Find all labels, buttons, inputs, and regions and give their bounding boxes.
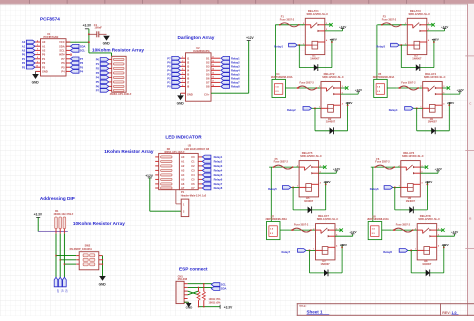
svg-text:1N4007: 1N4007 (304, 199, 314, 203)
svg-text:+12V: +12V (435, 167, 443, 171)
svg-text:Fuse 3557-2: Fuse 3557-2 (294, 224, 309, 227)
svg-text:SRD-12VDC-SL-C: SRD-12VDC-SL-C (418, 217, 440, 221)
svg-text:+12V: +12V (340, 243, 348, 247)
svg-text:DS-DSRP_C319061: DS-DSRP_C319061 (70, 248, 93, 251)
svg-text:10Kohm Resistor Array: 10Kohm Resistor Array (92, 47, 144, 52)
svg-text:2: 2 (421, 86, 422, 88)
svg-text:C5: C5 (191, 178, 195, 182)
svg-text:A1: A1 (181, 160, 185, 164)
svg-text:A0: A0 (42, 40, 46, 44)
svg-text:+12V: +12V (447, 101, 455, 105)
svg-text:Relay5: Relay5 (231, 73, 240, 77)
svg-text:GND: GND (177, 102, 185, 106)
svg-text:1N4007: 1N4007 (412, 57, 422, 61)
svg-text:100nF: 100nF (94, 26, 102, 30)
svg-text:SCL: SCL (80, 49, 86, 53)
svg-text:7: 7 (37, 53, 38, 55)
svg-text:A2: A2 (65, 289, 69, 293)
svg-text:P5: P5 (80, 65, 84, 69)
svg-text:4: 4 (326, 39, 327, 42)
svg-text:4: 4 (182, 68, 183, 71)
svg-text:A6: A6 (181, 182, 185, 186)
svg-text:Relay3: Relay3 (214, 164, 223, 168)
svg-text:17: 17 (212, 81, 214, 83)
svg-text:1.0: 1.0 (452, 311, 457, 315)
svg-text:GND: GND (99, 283, 107, 287)
svg-text:P1: P1 (181, 190, 185, 194)
svg-text:4: 4 (438, 245, 439, 248)
svg-text:15: 15 (212, 73, 214, 75)
svg-text:+12V: +12V (441, 243, 449, 247)
svg-text:5: 5 (182, 73, 183, 75)
svg-text:8: 8 (182, 85, 183, 87)
svg-text:10Kohm Resistor Array: 10Kohm Resistor Array (73, 221, 125, 226)
svg-text:P5: P5 (96, 80, 100, 84)
svg-text:+3.3V: +3.3V (34, 213, 43, 217)
svg-text:1N4007: 1N4007 (422, 262, 432, 266)
svg-text:SRD-12VDC-SL-C: SRD-12VDC-SL-C (300, 154, 322, 158)
svg-text:Relay2: Relay2 (287, 108, 296, 112)
svg-text:Relay6: Relay6 (370, 187, 379, 191)
svg-text:Fuse 3557-2: Fuse 3557-2 (382, 18, 397, 21)
svg-text:8: 8 (37, 57, 38, 59)
svg-text:SRD-12VDC-SL-C: SRD-12VDC-SL-C (307, 12, 329, 16)
svg-text:Header-Male-2.54_1x2: Header-Male-2.54_1x2 (181, 195, 207, 198)
svg-text:A1: A1 (42, 44, 46, 48)
svg-text:+12V: +12V (323, 180, 331, 184)
svg-text:GND: GND (187, 92, 193, 96)
svg-text:Relay2: Relay2 (214, 160, 223, 164)
svg-text:A2: A2 (42, 49, 46, 53)
svg-text:P4: P4 (96, 76, 100, 80)
svg-text:11: 11 (212, 57, 214, 59)
svg-text:PCF8574AN: PCF8574AN (44, 35, 59, 39)
svg-text:2: 2 (313, 228, 314, 230)
svg-text:7: 7 (182, 81, 183, 83)
svg-text:Relay3: Relay3 (376, 45, 385, 49)
svg-text:SRD-12VDC-SL-C: SRD-12VDC-SL-C (409, 12, 431, 16)
svg-text:O6: O6 (206, 77, 210, 81)
svg-text:4: 4 (342, 102, 343, 105)
svg-text:Relay1: Relay1 (231, 56, 240, 60)
svg-text:4: 4 (428, 39, 429, 42)
svg-text:2: 2 (405, 23, 406, 25)
svg-text:P7: P7 (96, 89, 100, 93)
svg-text:P6: P6 (96, 85, 100, 89)
svg-text:P3: P3 (96, 71, 100, 75)
svg-text:Relay4: Relay4 (214, 169, 223, 173)
svg-text:ULN2803APG: ULN2803APG (193, 49, 210, 53)
svg-text:5: 5 (37, 45, 38, 47)
svg-text:U3: U3 (188, 144, 192, 148)
svg-text:CU+: CU+ (204, 92, 210, 96)
svg-text:Relay1: Relay1 (274, 45, 283, 49)
svg-text:C2: C2 (191, 164, 195, 168)
svg-text:C3: C3 (191, 169, 195, 173)
svg-text:O1: O1 (206, 56, 210, 60)
svg-text:Relay6: Relay6 (231, 77, 240, 81)
svg-text:P7: P7 (80, 57, 84, 61)
svg-text:P0: P0 (167, 85, 171, 89)
svg-text:2EDT1802/98.J04A: 2EDT1802/98.J04A (266, 218, 288, 221)
svg-text:LED INDICATOR: LED INDICATOR (165, 134, 202, 139)
svg-text:Fuse 3557-2: Fuse 3557-2 (375, 161, 390, 164)
svg-text:+12V: +12V (333, 167, 341, 171)
svg-text:SRD-12VDC-SL-C: SRD-12VDC-SL-C (424, 75, 446, 79)
svg-text:Relay4: Relay4 (231, 68, 240, 72)
svg-text:2EDT1802/98.J04A: 2EDT1802/98.J04A (271, 76, 293, 79)
svg-text:+12V: +12V (432, 38, 440, 42)
svg-text:Relay5: Relay5 (214, 173, 223, 177)
svg-text:Relay7: Relay7 (282, 250, 291, 254)
svg-text:P2: P2 (22, 61, 26, 65)
svg-text:INT#: INT# (59, 53, 65, 57)
svg-text:1: 1 (182, 57, 183, 59)
svg-text:Relay4: Relay4 (389, 108, 398, 112)
svg-text:A1: A1 (60, 289, 64, 293)
svg-text:Relay2: Relay2 (231, 60, 240, 64)
svg-text:Relay1: Relay1 (214, 155, 223, 159)
svg-text:SRD-12VDC-SL-C: SRD-12VDC-SL-C (322, 75, 344, 79)
svg-text:P2: P2 (167, 77, 171, 81)
svg-text:Addressing DIP: Addressing DIP (40, 196, 75, 201)
svg-text:A5: A5 (181, 178, 185, 182)
svg-text:Fuse 3557-2: Fuse 3557-2 (274, 161, 289, 164)
svg-text:P4: P4 (167, 68, 171, 72)
svg-text:A2: A2 (22, 49, 26, 53)
svg-text:2EDT1802/98.J04A: 2EDT1802/98.J04A (373, 76, 395, 79)
svg-text:Fuse 3557-2: Fuse 3557-2 (280, 18, 295, 21)
svg-text:13: 13 (212, 65, 214, 67)
svg-text:+12V: +12V (145, 174, 153, 178)
svg-text:ESP connect: ESP connect (179, 266, 208, 271)
svg-text:Relay8: Relay8 (231, 85, 240, 89)
svg-text:Relay8: Relay8 (383, 250, 392, 254)
svg-text:P7: P7 (61, 57, 65, 61)
svg-text:Sheet 1: Sheet 1 (307, 310, 324, 315)
svg-text:12: 12 (212, 61, 214, 63)
svg-text:REV:: REV: (442, 311, 450, 315)
svg-text:4606X-AP1-102LF: 4606X-AP1-102LF (110, 92, 132, 96)
svg-text:SDA: SDA (80, 44, 86, 48)
svg-text:16: 16 (212, 77, 214, 79)
svg-text:P4: P4 (61, 70, 65, 74)
svg-text:SRD-12VDC-SL-C: SRD-12VDC-SL-C (402, 154, 424, 158)
svg-text:1N4007: 1N4007 (428, 120, 438, 124)
svg-text:+12V: +12V (330, 38, 338, 42)
svg-text:LED BAR ARRAY X8: LED BAR ARRAY X8 (184, 147, 210, 151)
svg-text:TITLE:: TITLE: (299, 306, 306, 308)
svg-text:1Kohm Resistor Array: 1Kohm Resistor Array (104, 149, 154, 154)
svg-text:+12V: +12V (339, 25, 347, 29)
svg-text:P2: P2 (42, 61, 46, 65)
svg-text:1N4007: 1N4007 (321, 262, 331, 266)
svg-text:SW2: SW2 (85, 243, 91, 247)
svg-text:+12V: +12V (246, 36, 254, 40)
svg-text:+12V: +12V (451, 230, 459, 234)
svg-text:Darlington Array: Darlington Array (178, 35, 215, 40)
svg-text:+12V: +12V (441, 25, 449, 29)
svg-text:2: 2 (182, 61, 183, 63)
svg-text:A0: A0 (181, 155, 185, 159)
svg-text:Fuse 3557-2: Fuse 3557-2 (300, 82, 315, 85)
svg-text:P7: P7 (167, 56, 171, 60)
svg-text:O8: O8 (206, 85, 210, 89)
svg-text:P1: P1 (42, 57, 46, 61)
svg-text:SCL: SCL (59, 49, 65, 53)
svg-text:SRD-12VDC-SL-C: SRD-12VDC-SL-C (317, 217, 339, 221)
svg-text:C4: C4 (191, 173, 195, 177)
svg-text:P6: P6 (80, 61, 84, 65)
svg-text:Relay3: Relay3 (231, 64, 240, 68)
svg-text:P6: P6 (167, 60, 171, 64)
svg-text:A0: A0 (56, 289, 60, 293)
svg-text:4: 4 (336, 245, 337, 248)
svg-text:Relay6: Relay6 (214, 178, 223, 182)
svg-text:GND: GND (42, 70, 48, 74)
svg-text:4606X-102-474LF: 4606X-102-474LF (54, 213, 74, 216)
svg-text:4: 4 (320, 182, 321, 185)
svg-text:C1: C1 (191, 160, 195, 164)
svg-text:9: 9 (37, 61, 38, 63)
svg-text:10: 10 (36, 66, 38, 68)
svg-text:P0: P0 (42, 53, 46, 57)
svg-text:SDA: SDA (59, 44, 65, 48)
svg-text:O5: O5 (206, 73, 210, 77)
svg-text:4: 4 (422, 182, 423, 185)
svg-text:SCL: SCL (221, 283, 227, 287)
svg-text:P3: P3 (42, 65, 46, 69)
svg-text:+12V: +12V (355, 88, 363, 92)
svg-text:SDA: SDA (221, 287, 227, 291)
svg-text:Relay8: Relay8 (214, 186, 223, 190)
svg-text:+12V: +12V (456, 88, 464, 92)
svg-text:A4: A4 (181, 173, 185, 177)
svg-text:18: 18 (212, 85, 214, 87)
svg-text:A2: A2 (181, 164, 185, 168)
svg-text:A1: A1 (22, 44, 26, 48)
svg-text:Fuse 3557-2: Fuse 3557-2 (401, 82, 416, 85)
svg-text:O4: O4 (206, 68, 210, 72)
svg-text:C7: C7 (191, 186, 195, 190)
svg-text:+12V: +12V (349, 230, 357, 234)
svg-text:O3: O3 (206, 64, 210, 68)
svg-text:250-208: 250-208 (178, 277, 188, 281)
svg-text:P1: P1 (96, 62, 100, 66)
svg-text:4: 4 (443, 102, 444, 105)
svg-text:P3: P3 (22, 65, 26, 69)
svg-text:Relay7: Relay7 (214, 182, 223, 186)
svg-text:P0: P0 (22, 53, 26, 57)
svg-text:C0: C0 (191, 155, 195, 159)
svg-text:P1: P1 (167, 81, 171, 85)
svg-text:GND: GND (32, 80, 40, 84)
svg-text:VCC: VCC (59, 40, 65, 44)
svg-text:1N4007: 1N4007 (310, 57, 320, 61)
svg-text:1N4007: 1N4007 (326, 120, 336, 124)
svg-text:P1: P1 (22, 57, 26, 61)
svg-text:P0: P0 (96, 58, 100, 62)
svg-text:P4: P4 (80, 70, 84, 74)
svg-text:14: 14 (212, 68, 214, 71)
svg-text:P5: P5 (167, 64, 171, 68)
svg-text:Fuse 3557-2: Fuse 3557-2 (396, 224, 411, 227)
svg-text:P5: P5 (61, 65, 65, 69)
svg-text:+12V: +12V (425, 180, 433, 184)
svg-text:6: 6 (37, 49, 38, 51)
svg-text:P3: P3 (167, 73, 171, 77)
svg-text:1N4007: 1N4007 (406, 199, 416, 203)
svg-text:C6: C6 (191, 182, 195, 186)
svg-text:A7: A7 (181, 186, 185, 190)
svg-text:GND: GND (186, 306, 194, 310)
svg-text:PCF8574: PCF8574 (40, 17, 60, 22)
svg-text:2: 2 (303, 23, 304, 25)
svg-text:4: 4 (37, 39, 38, 42)
svg-text:10KΩ ±5%: 10KΩ ±5% (209, 302, 222, 305)
svg-text:Relay7: Relay7 (231, 81, 240, 85)
svg-text:6: 6 (182, 77, 183, 79)
svg-text:P2: P2 (96, 67, 100, 71)
svg-text:2: 2 (415, 228, 416, 230)
svg-text:3: 3 (182, 65, 183, 67)
svg-text:+12V: +12V (345, 101, 353, 105)
svg-text:Relay5: Relay5 (268, 187, 277, 191)
svg-text:A0: A0 (22, 40, 26, 44)
svg-text:P6: P6 (61, 61, 65, 65)
svg-text:2: 2 (399, 165, 400, 167)
svg-text:GND: GND (103, 42, 111, 46)
svg-text:2EDT1802/98.J04A: 2EDT1802/98.J04A (367, 218, 389, 221)
svg-text:+3.3V: +3.3V (83, 23, 92, 27)
svg-text:A3: A3 (181, 169, 185, 173)
svg-text:O2: O2 (206, 60, 210, 64)
svg-text:2: 2 (319, 86, 320, 88)
svg-text:2: 2 (297, 165, 298, 167)
svg-text:O7: O7 (206, 81, 210, 85)
svg-text:+3.3V: +3.3V (224, 305, 233, 309)
